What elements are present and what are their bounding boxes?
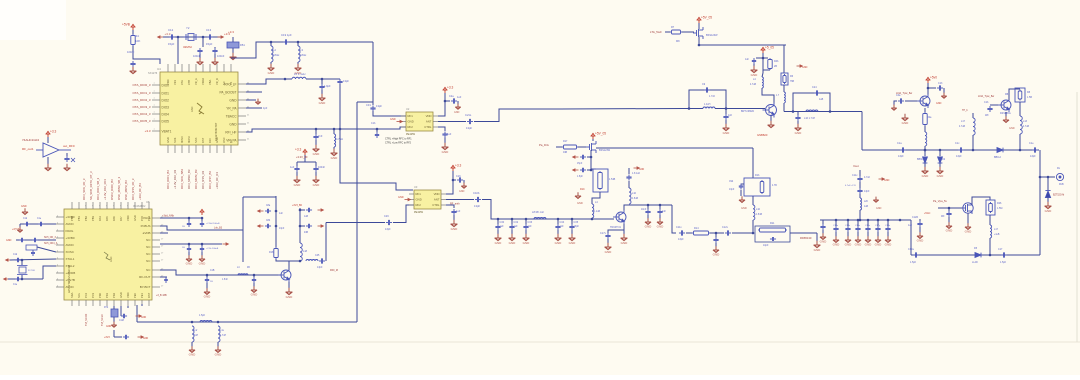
svg-text:CTRL +High RFC to RF1: CTRL +High RFC to RF1: [385, 138, 412, 141]
IC2 top pin: [99, 202, 101, 209]
svg-text:GND: GND: [946, 229, 954, 233]
U2 pin row GND/ANT: [401, 121, 406, 123]
svg-text:SC5_NO_3: SC5_NO_3: [44, 237, 56, 239]
svg-text:C1d: C1d: [23, 218, 28, 220]
cap C1M row: [144, 303, 146, 305]
svg-text:GND: GND: [875, 243, 883, 247]
svg-text:C1e: C1e: [37, 218, 42, 220]
svg-text:GND: GND: [876, 207, 882, 210]
svg-text:1nF: 1nF: [528, 225, 533, 228]
svg-text:GND: GND: [215, 353, 223, 357]
svg-text:C1e: C1e: [1029, 142, 1034, 145]
svg-text:GND: GND: [166, 137, 170, 143]
svg-text:C31: C31: [366, 103, 371, 107]
svg-text:BB6-2: BB6-2: [994, 156, 1002, 159]
resistor R11 loop: [755, 226, 790, 242]
svg-text:C11x: C11x: [852, 174, 858, 177]
resistor R7 gate: [670, 30, 682, 34]
capacitor C2a U2 vdd decoupling: [444, 100, 447, 103]
svg-text:C8a: C8a: [266, 205, 271, 207]
ground left of R13: [575, 192, 581, 198]
svg-text:OC3_RST_B3: OC3_RST_B3: [208, 171, 212, 189]
svg-text:SX1276: SX1276: [148, 71, 158, 75]
Q7 emitter gnd: [288, 282, 290, 290]
U3 GND arrow: [405, 198, 411, 200]
svg-text:PB0: PB0: [70, 216, 74, 221]
svg-text:R1C: R1C: [580, 188, 585, 191]
svg-text:10K: 10K: [135, 39, 140, 43]
svg-text:OC3_SCK_RF_3: OC3_SCK_RF_3: [82, 178, 86, 200]
svg-text:32Mhz: 32Mhz: [183, 45, 193, 49]
svg-text:GND: GND: [621, 241, 629, 245]
svg-text:+5V_05: +5V_05: [701, 16, 712, 20]
svg-text:GND: GND: [495, 241, 503, 245]
svg-text:GND: GND: [741, 206, 747, 210]
svg-text:R18: R18: [269, 251, 274, 254]
Q3 collector to load node: [624, 205, 672, 210]
svg-text:L13: L13: [1023, 120, 1028, 123]
svg-text:NSS: NSS: [194, 137, 198, 143]
svg-text:GND: GND: [141, 317, 146, 319]
ground under C5: [130, 67, 137, 74]
svg-text:GND: GND: [251, 293, 259, 297]
IC2 bottom pin: [78, 300, 80, 306]
svg-text:GND: GND: [143, 338, 148, 340]
capacitor C13a at Q4 collector: [927, 87, 930, 90]
IC2 top pin: [92, 202, 94, 209]
capacitor C17x at Q3 emitter: [608, 230, 624, 233]
svg-text:32.768: 32.768: [28, 270, 35, 272]
svg-text:PA5: PA5: [105, 216, 109, 221]
svg-text:GND: GND: [398, 196, 404, 199]
svg-text:C1b: C1b: [984, 101, 989, 104]
vertical trunk x=340 RFO chain down to U3: [340, 84, 413, 190]
svg-text:PC2: PC2: [84, 292, 88, 298]
IC1 bottom pin: [167, 145, 169, 153]
inductor L21 series on RF row: [238, 274, 248, 275]
IC1 top pin: [181, 64, 183, 72]
svg-text:C45: C45: [315, 254, 320, 257]
svg-text:GND: GND: [833, 243, 841, 247]
transistor Q4: [917, 94, 930, 108]
transistor Q6 pa switch mosfet: [963, 203, 973, 213]
svg-text:13pF: 13pF: [317, 266, 323, 269]
IC1 bottom pin: [223, 145, 225, 153]
svg-text:4.7nH: 4.7nH: [220, 335, 226, 337]
svg-text:1.1uB: 1.1uB: [594, 211, 600, 213]
IC2 top pin: [106, 202, 108, 209]
svg-text:9: 9: [120, 206, 121, 208]
svg-text:L17: L17: [961, 120, 966, 123]
capacitor C12c shunt: [253, 274, 256, 277]
svg-text:SA_SCB_RXTX_OT_3: SA_SCB_RXTX_OT_3: [89, 171, 93, 200]
capacitor C14x forest: [847, 219, 850, 222]
MOSFET U6 driver switch: [578, 146, 586, 148]
svg-text:PD1: PD1: [105, 292, 109, 298]
capacitor C19a under feed: [948, 208, 950, 211]
svg-text:GND: GND: [229, 122, 237, 126]
svg-text:DIO: DIO: [208, 138, 212, 143]
svg-text:C35: C35: [574, 221, 579, 224]
inductor L3 shunt: [297, 41, 300, 44]
IC2 left pin XTAL1: [56, 258, 64, 260]
svg-text:SCL: SCL: [77, 292, 81, 298]
svg-text:PD2: PD2: [112, 292, 116, 298]
resistor R18 from tower1: [274, 247, 278, 259]
svg-text:RST: RST: [201, 137, 205, 143]
U3 CTRL wire down: [446, 205, 454, 208]
svg-text:GND: GND: [723, 131, 731, 135]
svg-text:+3.3: +3.3: [145, 129, 151, 133]
svg-text:1uB: 1uB: [864, 206, 869, 208]
capacitor C17y forest: [877, 219, 880, 222]
svg-text:GND: GND: [21, 205, 27, 208]
IC2 top pin: [71, 202, 73, 209]
capacitor C19 series: [283, 39, 289, 44]
svg-text:100nF: 100nF: [217, 54, 225, 58]
inductor L17 output: [989, 215, 991, 225]
resistor R6 bias: [763, 57, 768, 59]
svg-text:MISO: MISO: [180, 136, 184, 143]
IC1 right pin GND: [238, 99, 246, 101]
wire IC2 stub to bottom wire: [136, 305, 138, 322]
resistor R13 box: [593, 169, 608, 192]
IC2 bottom pin: [92, 300, 94, 306]
svg-text:GND: GND: [416, 198, 422, 202]
svg-text:74AHC1G04: 74AHC1G04: [22, 138, 39, 142]
MOSFET Q1: [693, 27, 703, 39]
svg-text:OTA_DIO1_3: OTA_DIO1_3: [133, 91, 151, 95]
capacitor C13x forest: [835, 219, 838, 222]
IC1 bottom pin: [209, 145, 211, 153]
series diode D3: [997, 148, 1003, 153]
svg-text:1.5pF: 1.5pF: [910, 261, 917, 264]
capacitor C10b series: [475, 197, 481, 202]
svg-text:PA6: PA6: [112, 216, 116, 221]
capacitor C40 shunt after R14: [710, 232, 716, 234]
svg-text:GND: GND: [865, 243, 873, 247]
svg-text:PA7: PA7: [119, 216, 123, 221]
svg-text:C9b: C9b: [729, 181, 734, 183]
svg-text:+3.3: +3.3: [165, 32, 171, 36]
svg-text:4.7uB: 4.7uB: [750, 84, 756, 86]
svg-text:C1d: C1d: [13, 254, 18, 256]
capacitor C11x series on IF line: [679, 230, 685, 235]
svg-text:RFO_LF: RFO_LF: [224, 82, 236, 86]
svg-text:DIO2: DIO2: [162, 98, 170, 102]
wire crystal row: [163, 36, 221, 38]
svg-text:2B: 2B: [774, 65, 777, 68]
capacitor C4b on bias chain: [590, 156, 593, 159]
resistor R14 series: [686, 232, 692, 234]
capacitor C11y vout stack: [859, 170, 861, 176]
svg-text:GND: GND: [313, 152, 321, 156]
capacitor C11z vout stack2: [859, 182, 861, 188]
svg-text:R2a: R2a: [927, 116, 932, 119]
svg-text:1.5uB: 1.5uB: [632, 198, 638, 200]
svg-text:ANT: ANT: [434, 198, 440, 202]
IC2 right pin NC: [152, 253, 160, 255]
svg-text:3nH: 3nH: [194, 335, 199, 337]
svg-text:43B: 43B: [304, 232, 309, 234]
svg-text:OSC_MISO_SB_3: OSC_MISO_SB_3: [117, 176, 121, 200]
svg-text:U2: U2: [406, 107, 410, 111]
power +3.3 above U2: [443, 87, 448, 93]
svg-text:R1b: R1b: [755, 174, 760, 177]
svg-text:OC3_SCK_SB3: OC3_SCK_SB3: [180, 169, 184, 189]
svg-text:OC3_MISO_B3: OC3_MISO_B3: [187, 169, 191, 189]
svg-text:LL4D: LL4D: [972, 261, 978, 264]
Q6 drain loop to R26: [972, 197, 990, 205]
IC1 top pin: [223, 64, 225, 72]
svg-text:GND: GND: [605, 250, 613, 254]
svg-text:L16 1.7nH: L16 1.7nH: [804, 117, 815, 120]
resistor R17 gate of U6: [562, 145, 578, 149]
svg-text:1nF: 1nF: [662, 211, 667, 213]
crystal Y1 32.768k: [21, 260, 23, 265]
capacitor C13 crystal right: [207, 34, 213, 39]
capacitor C1x at Q5 base: [990, 104, 998, 106]
IC1 top pin: [209, 64, 211, 72]
antenna vertical: [1039, 150, 1041, 255]
svg-text:RF1: RF1: [408, 114, 414, 118]
svg-text:1.9pF: 1.9pF: [324, 84, 331, 88]
svg-text:OTA_DIO5_3: OTA_DIO5_3: [133, 119, 151, 123]
svg-text:CTRL: CTRL: [424, 125, 432, 129]
svg-text:VR_A: VR_A: [194, 78, 198, 85]
svg-text:L18: L18: [303, 250, 308, 253]
inductor L13 to line: [1019, 102, 1021, 116]
IC U4 SX1276 body: [160, 72, 238, 145]
svg-text:GND: GND: [199, 262, 207, 266]
svg-text:VDD: VDD: [166, 79, 170, 85]
wire C10b to RX line: [482, 200, 592, 220]
capacitor C10y in loop: [770, 237, 776, 241]
U3 ANT output wire: [446, 199, 474, 201]
row PA1b y219: [160, 217, 202, 219]
svg-text:OSC_MOSI_B3: OSC_MOSI_B3: [124, 180, 128, 200]
wire U6 drain east: [596, 147, 753, 149]
svg-text:RST: RST: [147, 292, 151, 298]
inductor L1b on +5 branch: [783, 85, 785, 92]
capacitor C35 on RX line: [571, 218, 574, 221]
svg-text:R17: R17: [563, 140, 568, 143]
PA line to east step: [861, 112, 863, 151]
svg-text:AVDD: AVDD: [66, 222, 75, 226]
svg-text:PC0: PC0: [140, 215, 144, 221]
IC1 top pin: [188, 64, 190, 72]
wire Pa_Vpa feed: [938, 207, 962, 209]
capacitor C12 crystal left: [169, 34, 175, 39]
capacitor C30 on RX line: [497, 218, 500, 221]
svg-text:+3.3: +3.3: [228, 30, 234, 34]
svg-text:C33: C33: [528, 221, 533, 224]
svg-text:+5_05: +5_05: [765, 46, 774, 50]
svg-text:C1c: C1c: [955, 142, 960, 145]
svg-text:1uF: 1uF: [514, 225, 519, 228]
svg-text:GND: GND: [215, 137, 219, 143]
svg-text:DR113BG: DR113BG: [1000, 112, 1011, 115]
svg-text:PE0: PE0: [133, 293, 137, 298]
IC2 right pin NC: [152, 260, 160, 262]
svg-text:1uF: 1uF: [908, 224, 913, 227]
svg-text:RF_out1: RF_out1: [22, 147, 34, 151]
svg-text:U5: U5: [146, 200, 150, 204]
inductor L10 collector load: [629, 188, 631, 204]
svg-text:+C1b 100nB: +C1b 100nB: [206, 248, 219, 250]
svg-text:9: 9: [113, 206, 114, 208]
svg-text:TM_SCO0: TM_SCO0: [84, 313, 88, 326]
IC2 left pin +3VB0: [56, 216, 64, 218]
IC1 left pin DIO4: [152, 113, 160, 115]
svg-text:GND: GND: [751, 73, 759, 77]
svg-text:GND: GND: [577, 201, 583, 205]
U2 CTRL wire: [438, 127, 445, 131]
IC2 right pin BY-BCT: [152, 286, 160, 288]
IC2 bottom pin: [141, 300, 143, 306]
svg-text:PC3: PC3: [91, 292, 95, 298]
svg-text:GND: GND: [6, 239, 12, 242]
IC1 top pin: [174, 64, 176, 72]
svg-text:RD65130: RD65130: [800, 236, 812, 240]
RF-OUT chain: [160, 270, 281, 275]
svg-text:AVDD: AVDD: [66, 285, 75, 289]
svg-text:FB1: FB1: [240, 43, 245, 47]
svg-text:OC3_DIO1_SB_3: OC3_DIO1_SB_3: [96, 177, 100, 200]
bead on bottom line: [200, 321, 212, 323]
svg-text:DIO3: DIO3: [162, 105, 170, 109]
svg-text:GND: GND: [331, 156, 339, 160]
svg-text:C1M: C1M: [119, 320, 124, 322]
Q2 emitter ground: [770, 116, 772, 124]
svg-text:TM_SCL0: TM_SCL0: [100, 314, 104, 326]
capacitor C6b under row: [201, 218, 203, 221]
svg-text:GND: GND: [657, 225, 665, 229]
capacitor C15b east forest: [899, 219, 902, 222]
IC1 right pin YR_PA: [238, 107, 246, 109]
inductor L1b under filter: [752, 196, 754, 205]
svg-text:9: 9: [85, 206, 86, 208]
svg-text:RF2: RF2: [408, 125, 414, 129]
vertical down to U2 RF1: [372, 42, 374, 105]
capacitor C34 on RX line: [557, 218, 560, 221]
svg-text:1.5pF: 1.5pF: [577, 176, 583, 178]
power +3.3 above U3: [451, 165, 456, 171]
blue cap R7b: [111, 309, 118, 317]
IC2 left pin XOSC: [56, 251, 64, 253]
bottom-line inductors: [191, 321, 194, 324]
power arrow up on PA1b row: [200, 209, 205, 215]
IC2 bottom pin: [148, 300, 150, 306]
IC1 bottom pin: [181, 145, 183, 153]
wire L1b to IF line: [752, 220, 754, 233]
protection diode D1: [924, 149, 927, 152]
capacitor C37 supply on L10: [628, 181, 630, 188]
inductor L4 bias feed: [592, 204, 594, 218]
ground under ferrite: [230, 53, 237, 60]
svg-text:WF: WF: [985, 114, 989, 117]
svg-text:+9G7B: +9G7B: [66, 278, 75, 282]
capacitor C16x forest: [867, 219, 870, 222]
svg-text:AVDD: AVDD: [66, 243, 75, 247]
svg-text:BZT52C4b: BZT52C4b: [1053, 195, 1065, 197]
svg-text:GND: GND: [204, 295, 212, 299]
svg-text:1uF: 1uF: [447, 133, 452, 136]
svg-text:GND: GND: [885, 243, 893, 247]
IC2 right pin PnBUS: [152, 225, 160, 227]
capacitor C24 loop2 top: [814, 90, 820, 95]
hook vertical right of IC2: [242, 197, 244, 262]
svg-text:1nF: 1nF: [560, 225, 565, 228]
wire C21L up to PA line: [474, 109, 560, 122]
svg-text:1.5nB: 1.5nB: [756, 214, 762, 216]
capacitor C27: [315, 162, 317, 166]
capacitor C7b: [201, 244, 203, 246]
svg-text:L1r: L1r: [194, 329, 198, 332]
svg-text:L8 RF coil: L8 RF coil: [532, 210, 544, 214]
U2 pin row RF1/VDD: [401, 115, 406, 117]
svg-text:1.5B: 1.5B: [1027, 96, 1032, 99]
svg-text:13pF: 13pF: [1030, 155, 1036, 158]
svg-text:13pF: 13pF: [385, 228, 391, 231]
svg-text:SC5_NO4_3: SC5_NO4_3: [44, 243, 58, 245]
svg-text:PA4: PA4: [98, 216, 102, 221]
feedback loop 1 around driver: [689, 90, 726, 109]
svg-text:RFI_HF: RFI_HF: [225, 130, 236, 134]
svg-text:+3V3_RF_R3: +3V3_RF_R3: [215, 172, 219, 189]
svg-text:VR_D: VR_D: [215, 78, 219, 85]
capacitor C1C shunt on RF row: [206, 274, 209, 277]
IC U3 PE4259 body: [414, 190, 441, 209]
ground end of R11 row: [816, 233, 818, 242]
svg-text:C21L: C21L: [465, 113, 472, 117]
capacitor C5 under R4: [130, 61, 135, 67]
capacitor C18x forest: [887, 219, 890, 222]
row XTAL2: [4, 278, 10, 280]
svg-text:4.7uF+C11: 4.7uF+C11: [845, 185, 857, 187]
U2 pin row RF2/CTRL: [401, 126, 406, 128]
svg-text:L17: L17: [994, 228, 999, 231]
svg-text:4B: 4B: [247, 267, 250, 269]
svg-text:15pF: 15pF: [577, 163, 583, 165]
IC1 bottom pin: [188, 145, 190, 153]
svg-text:GND: GND: [454, 111, 460, 114]
junction crystal left: [177, 36, 180, 39]
IC2 top pin: [127, 202, 129, 209]
svg-text:M8: M8: [676, 40, 680, 43]
crystal Y2 32MHz: [184, 34, 199, 41]
IC1 right pin PA_BOOST: [238, 91, 246, 93]
svg-text:R11: R11: [770, 222, 775, 225]
svg-text:DIO4: DIO4: [162, 112, 170, 116]
svg-text:+1uB: +1uB: [994, 234, 1000, 236]
bottom line: [911, 254, 1040, 256]
svg-text:C1a: C1a: [897, 142, 902, 145]
inductor L20 vout stack: [859, 194, 861, 198]
svg-text:GND: GND: [917, 239, 925, 243]
svg-text:GND: GND: [713, 253, 721, 257]
capacitor C9b left of filter: [741, 183, 744, 185]
IC2 right pin NC: [152, 269, 160, 271]
svg-text:NC: NC: [229, 139, 233, 143]
IC1 top pin: [195, 64, 197, 72]
wire GND pin stub: [246, 99, 256, 101]
transistor Q3 LNA: [592, 218, 614, 220]
svg-text:+3.3V_D10_R3: +3.3V_D10_R3: [173, 169, 177, 189]
capacitor C12a series bottom: [913, 252, 919, 257]
capacitor C1a2 at Q4 base: [905, 100, 917, 102]
row1 caps: [20, 223, 56, 225]
